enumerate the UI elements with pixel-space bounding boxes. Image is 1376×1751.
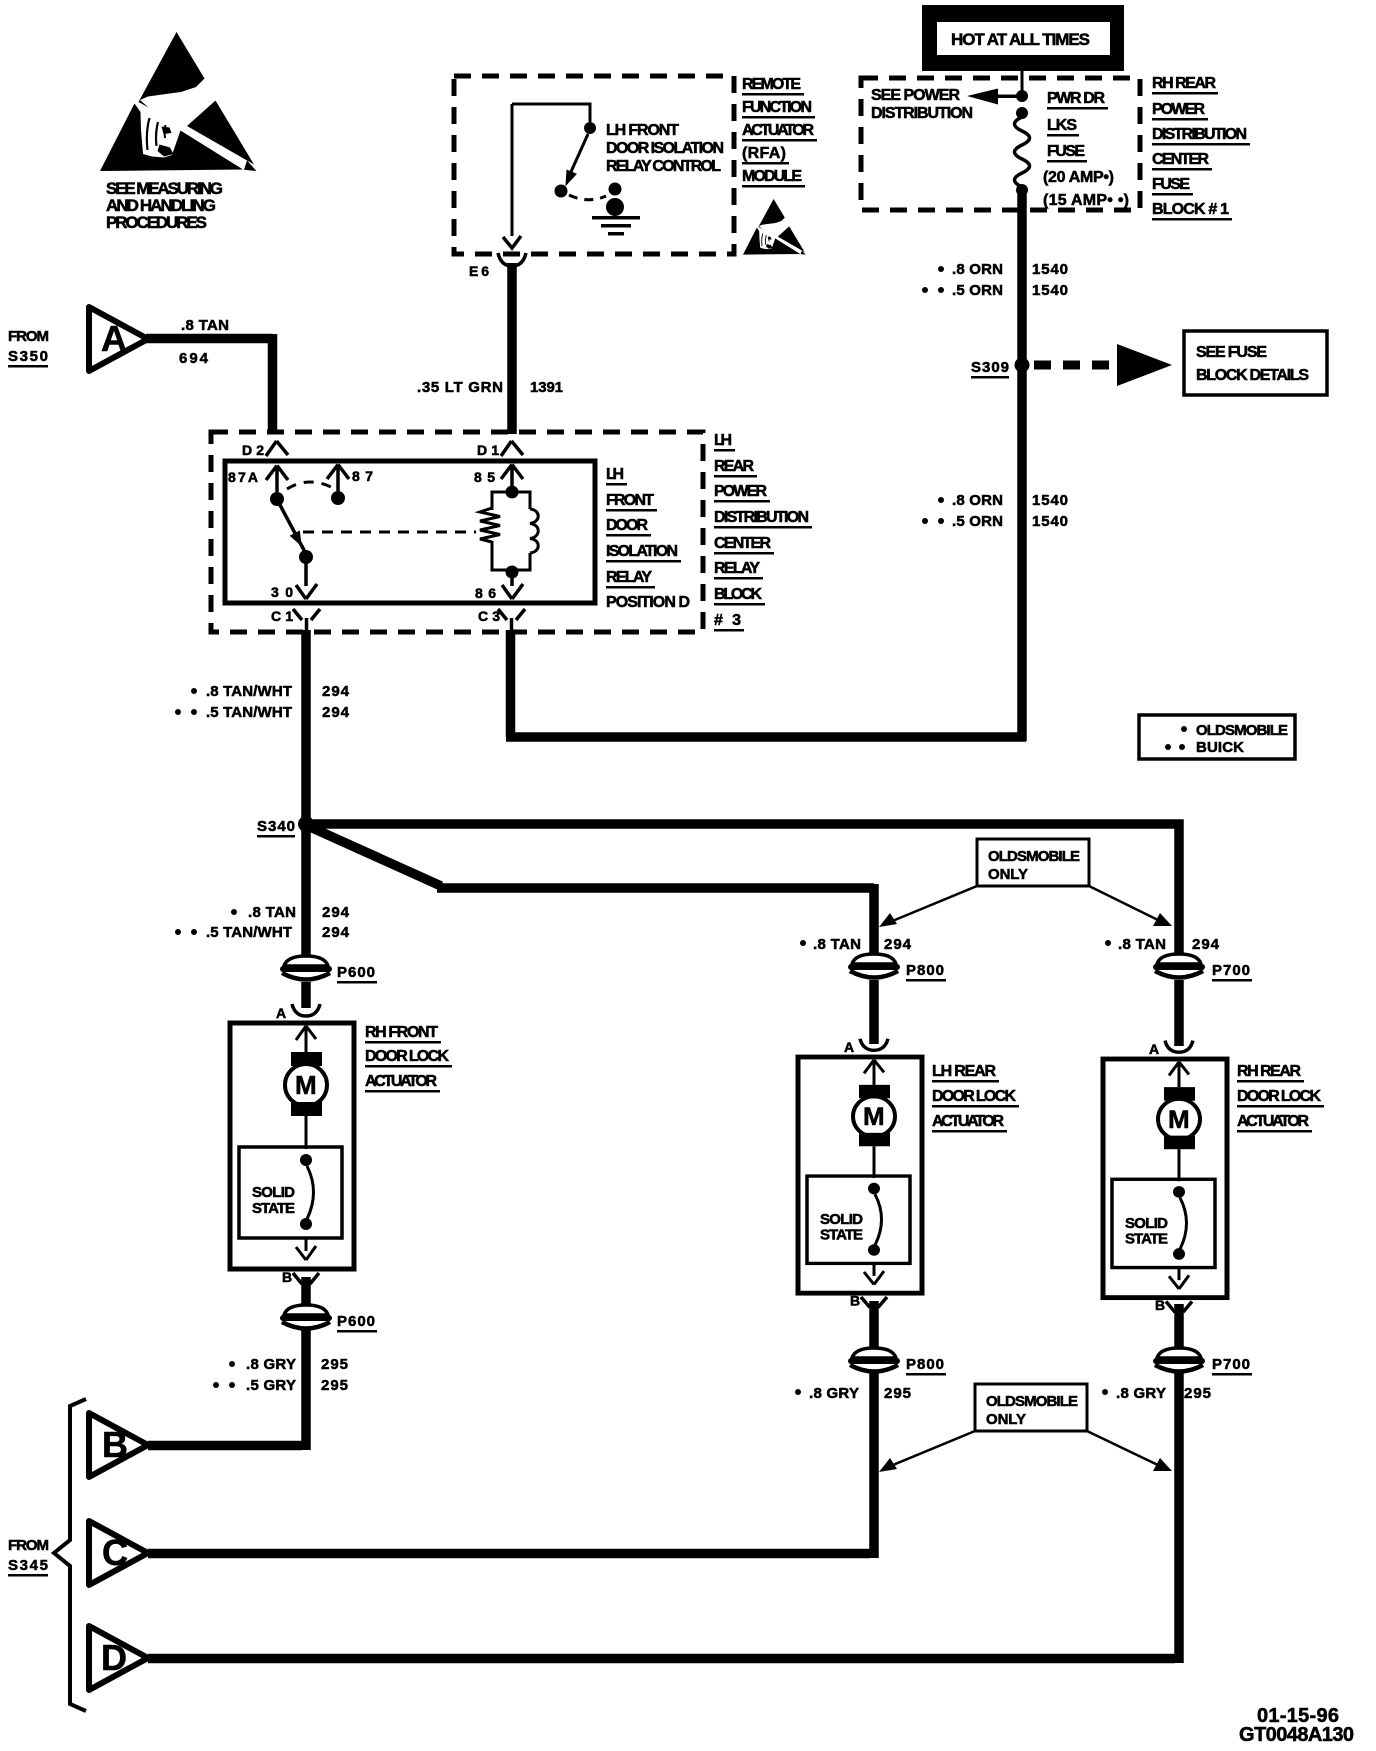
OLDSMOBILE ONLY callout (lower) [975,1384,1087,1431]
svg-text:S350: S350 [8,348,48,365]
wire .8 GRY 295 to connector C [148,1373,874,1558]
svg-text:MODULE: MODULE [742,168,802,185]
svg-text:294: 294 [322,904,350,921]
pin 87A terminal [228,466,288,507]
connector triangle D [89,1626,148,1690]
pin 87 terminal [327,465,373,506]
relay inner box [225,461,595,603]
svg-text:.5 TAN/WHT: .5 TAN/WHT [206,924,292,941]
relay block #3 dashed box [211,432,703,632]
svg-text:87A: 87A [228,469,258,485]
label LH REAR DOOR LOCK ACTUATOR [932,1063,1019,1133]
connector P800 (lower) [850,1348,946,1376]
label .35 LT GRN 1391 [417,379,563,396]
svg-text:OLDSMOBILE: OLDSMOBILE [1196,722,1288,739]
svg-text:294: 294 [322,704,350,721]
wire actuator B to P600 lower [301,1277,311,1306]
label RH REAR DOOR LOCK ACTUATOR [1237,1063,1324,1133]
svg-text:OLDSMOBILE: OLDSMOBILE [986,1393,1078,1410]
svg-text:(15 AMP• •): (15 AMP• •) [1043,192,1129,209]
svg-text:.8 ORN: .8 ORN [952,492,1003,509]
pin D2 [242,441,288,458]
labels RH REAR POWER DISTRIBUTION CENTER FUSE BLOCK 1 [1152,75,1250,221]
label SEE POWER DISTRIBUTION [871,87,973,122]
label LH FRONT DOOR ISOLATION RELAY POSITION D [606,466,690,611]
svg-text:.8 TAN: .8 TAN [1118,936,1166,953]
wire P800 to LH rear actuator pin A [869,980,879,1044]
svg-text:D: D [101,1637,127,1678]
svg-text:FROM: FROM [8,328,49,345]
svg-text:FUNCTION: FUNCTION [742,99,812,116]
svg-text:.8 GRY: .8 GRY [809,1385,859,1402]
connector P600 (upper) [282,956,377,984]
svg-text:RELAY CONTROL: RELAY CONTROL [606,158,721,175]
svg-text:B: B [102,1424,128,1465]
wire .8 TAN 694 from A to relay D2 [146,334,273,434]
RH front door lock actuator [230,1004,354,1285]
svg-text:P700: P700 [1212,1356,1250,1373]
dashed arc between 87A and 87 [287,482,331,489]
fuse PWR DR LKS (squiggle) [1015,117,1030,187]
svg-text:REAR: REAR [714,458,754,475]
splice S309 [971,358,1030,379]
svg-text:295: 295 [1184,1385,1211,1402]
svg-text:# 3: # 3 [714,612,741,629]
label .8 GRY 295 (LH rear) [795,1385,911,1402]
svg-text:POSITION D: POSITION D [606,594,690,611]
svg-text:P600: P600 [337,1313,375,1330]
svg-text:LH REAR: LH REAR [932,1063,996,1080]
node at arrow takeoff [1016,90,1028,102]
arrow to RH rear gry wire [1087,1431,1172,1471]
svg-text:LH: LH [714,432,732,449]
connector triangle B [89,1413,148,1477]
LH front door isolation relay control switch wire [512,104,590,236]
svg-text:FROM: FROM [8,1537,49,1554]
svg-text:BLOCK: BLOCK [714,586,762,603]
wire actuator B to P800 lower [869,1301,879,1350]
relay switch arm (position D) [280,505,313,564]
svg-text:.35 LT GRN: .35 LT GRN [417,379,503,396]
svg-text:FUSE: FUSE [1152,176,1190,193]
connector P700 (upper) [1155,954,1252,982]
svg-text:DISTRIBUTION: DISTRIBUTION [714,509,809,526]
svg-text:POWER: POWER [1152,101,1205,118]
svg-text:ACTUATOR: ACTUATOR [365,1073,437,1090]
svg-text:DISTRIBUTION: DISTRIBUTION [1152,126,1247,143]
svg-text:ONLY: ONLY [986,1411,1026,1428]
svg-text:295: 295 [884,1385,911,1402]
svg-text:.8 GRY: .8 GRY [246,1356,296,1373]
dashed arrow to fuse block details [1034,344,1172,386]
svg-text:DISTRIBUTION: DISTRIBUTION [871,105,973,122]
arrow into pin E6 [503,236,521,248]
connector triangle A [89,307,148,371]
brace FROM S345 [54,1399,86,1711]
arrow to LH rear tan wire [879,886,977,927]
svg-text:.5 GRY: .5 GRY [246,1377,296,1394]
svg-text:ACTUATOR: ACTUATOR [1237,1113,1309,1130]
RFA module dashed box [454,76,734,254]
svg-text:RH REAR: RH REAR [1237,1063,1301,1080]
dashed link to ground [569,195,606,200]
svg-text:.5 ORN: .5 ORN [952,513,1003,530]
connector P800 (upper) [850,954,946,982]
svg-text:S340: S340 [257,818,295,835]
ESD warning symbol (small) [743,199,806,255]
svg-text:PROCEDURES: PROCEDURES [106,213,207,232]
pin 30 [271,562,317,600]
label RH FRONT DOOR LOCK ACTUATOR [365,1024,452,1093]
svg-text:LH: LH [606,466,624,483]
svg-text:1540: 1540 [1032,513,1068,530]
arrow to see power distribution [967,89,1020,105]
label .8 TAN 294 pair below S340 [175,904,350,941]
svg-text:294: 294 [322,924,350,941]
svg-text:1540: 1540 [1032,492,1068,509]
dashed mechanical link [303,531,476,534]
svg-text:S309: S309 [971,359,1009,376]
svg-text:RELAY: RELAY [606,569,652,586]
svg-text:.8 TAN: .8 TAN [248,904,296,921]
svg-text:RELAY: RELAY [714,560,760,577]
connector triangle C [89,1521,148,1585]
wire .8 GRY 295 to connector D [148,1373,1179,1663]
svg-text:CENTER: CENTER [714,535,771,552]
date and drawing number [1239,1705,1354,1746]
relay control switch contact (bottom) [555,185,568,198]
svg-text:294: 294 [884,936,912,953]
label FROM S350 [8,328,49,368]
svg-text:295: 295 [321,1356,348,1373]
svg-text:HOT AT ALL TIMES: HOT AT ALL TIMES [951,30,1090,49]
svg-text:(20 AMP•): (20 AMP•) [1043,169,1114,186]
pin C1 [271,608,320,634]
svg-text:GT0048A130: GT0048A130 [1239,1724,1354,1746]
svg-text:C: C [102,1532,128,1573]
fuse block dashed box [861,78,1140,210]
svg-text:.5 ORN: .5 ORN [952,282,1003,299]
svg-text:1391: 1391 [530,379,563,396]
wire P700 to RH rear actuator pin A [1174,980,1184,1046]
arrow to LH rear gry wire [879,1431,975,1472]
svg-text:P800: P800 [906,962,944,979]
wire actuator B to P700 lower [1174,1304,1184,1350]
svg-text:OLDSMOBILE: OLDSMOBILE [988,848,1080,865]
relay coil 85-86 [474,465,538,602]
svg-text:PWR DR: PWR DR [1047,90,1105,107]
svg-text:S345: S345 [8,1557,48,1574]
svg-text:REMOTE: REMOTE [742,76,801,93]
pin C3 [478,608,525,634]
svg-text:DOOR LOCK: DOOR LOCK [365,1048,449,1065]
label .8 TAN 694 [179,317,229,367]
svg-text:(RFA): (RFA) [742,145,786,162]
connector P600 (lower) [282,1305,377,1333]
OLDSMOBILE ONLY callout (upper) [977,839,1089,886]
label .8 ORN 1540 (upper pair) [922,261,1068,299]
label .8 GRY 295 pair [213,1356,348,1394]
label .8 TAN 294 (RH rear) [1105,936,1220,953]
wire stub from hot box [1021,71,1024,92]
svg-text:.8 ORN: .8 ORN [952,261,1003,278]
svg-text:SEE POWER: SEE POWER [871,87,960,104]
splice S340 [257,816,314,838]
svg-text:DOOR: DOOR [606,517,648,534]
label .8 ORN 1540 (lower pair) [922,492,1068,530]
wire S340 to P800 (diagonal branch) [308,826,874,955]
svg-text:POWER: POWER [714,483,767,500]
svg-text:RH FRONT: RH FRONT [365,1024,438,1041]
svg-text:P600: P600 [337,964,375,981]
svg-text:DOOR LOCK: DOOR LOCK [932,1088,1016,1105]
labels REMOTE FUNCTION ACTUATOR (RFA) MODULE [742,76,817,188]
label PWR DR LKS FUSE (20 AMP) (15 AMP) [1043,90,1129,209]
svg-text:295: 295 [321,1377,348,1394]
legend box OLDSMOBILE / BUICK [1139,715,1295,759]
label FROM S345 [8,1537,49,1577]
svg-text:CENTER: CENTER [1152,151,1209,168]
connector E6 cup [469,253,526,279]
svg-text:.8 TAN: .8 TAN [813,936,861,953]
svg-text:BLOCK # 1: BLOCK # 1 [1152,201,1229,218]
label .8 TAN 294 (LH rear) [800,936,912,953]
ESD warning symbol (large) [100,32,257,171]
svg-text:LKS: LKS [1047,117,1077,134]
wire .8 ORN 1540 (vertical from fuse block) [1017,194,1027,741]
svg-text:LH FRONT: LH FRONT [606,122,679,139]
relay control switch arm [566,134,588,185]
svg-text:694: 694 [179,350,209,367]
ground [592,183,640,236]
svg-text:ACTUATOR: ACTUATOR [932,1113,1004,1130]
svg-text:DOOR ISOLATION: DOOR ISOLATION [606,140,724,157]
svg-text:SEE FUSE: SEE FUSE [1196,344,1267,361]
node below fuse [1016,184,1028,196]
pin D1 [477,441,523,458]
svg-text:.5 TAN/WHT: .5 TAN/WHT [206,704,292,721]
LH rear door lock actuator [798,1039,922,1309]
arrow to RH rear tan wire [1089,886,1172,926]
wire P600 to RH front actuator pin A [301,982,311,1008]
svg-text:294: 294 [1192,936,1220,953]
svg-text:BLOCK DETAILS: BLOCK DETAILS [1196,367,1309,384]
wire from C3 to power feed (loop) [506,630,1026,737]
svg-text:A: A [101,318,127,359]
label LH REAR POWER DISTRIBUTION CENTER RELAY BLOCK #3 [714,432,812,632]
svg-text:RH REAR: RH REAR [1152,75,1216,92]
wire .35 LT GRN 1391 [507,263,517,434]
svg-text:FUSE: FUSE [1047,143,1085,160]
svg-text:ACTUATOR: ACTUATOR [742,122,814,139]
label .8 TAN/WHT 294 pair [175,683,350,721]
label LH FRONT DOOR ISOLATION RELAY CONTROL [606,122,724,175]
svg-text:DOOR LOCK: DOOR LOCK [1237,1088,1321,1105]
svg-text:P700: P700 [1212,962,1250,979]
svg-text:FRONT: FRONT [606,492,654,509]
wire S340 to P700 (top branch) [310,820,1184,955]
connector P700 (lower) [1155,1348,1252,1376]
RH rear door lock actuator [1103,1041,1227,1314]
label .8 GRY 295 (RH rear) [1102,1385,1211,1402]
svg-text:1540: 1540 [1032,282,1068,299]
svg-text:.8 TAN/WHT: .8 TAN/WHT [206,683,292,700]
node above fuse [1016,107,1028,119]
svg-text:.8 TAN: .8 TAN [181,317,229,334]
wire .8 GRY 295 to connector B [148,1330,306,1450]
HOT AT ALL TIMES box [922,5,1124,71]
svg-text:ISOLATION: ISOLATION [606,543,678,560]
svg-text:294: 294 [322,683,350,700]
svg-text:.8 GRY: .8 GRY [1116,1385,1166,1402]
SEE FUSE BLOCK DETAILS box [1184,331,1327,395]
svg-text:P800: P800 [906,1356,944,1373]
svg-text:ONLY: ONLY [988,866,1028,883]
svg-text:1540: 1540 [1032,261,1068,278]
svg-text:BUICK: BUICK [1196,739,1244,756]
wire C1 tan/wht down to P600 [301,630,311,958]
relay control switch contact (top) [584,122,596,134]
ESD caution note text [106,179,223,232]
